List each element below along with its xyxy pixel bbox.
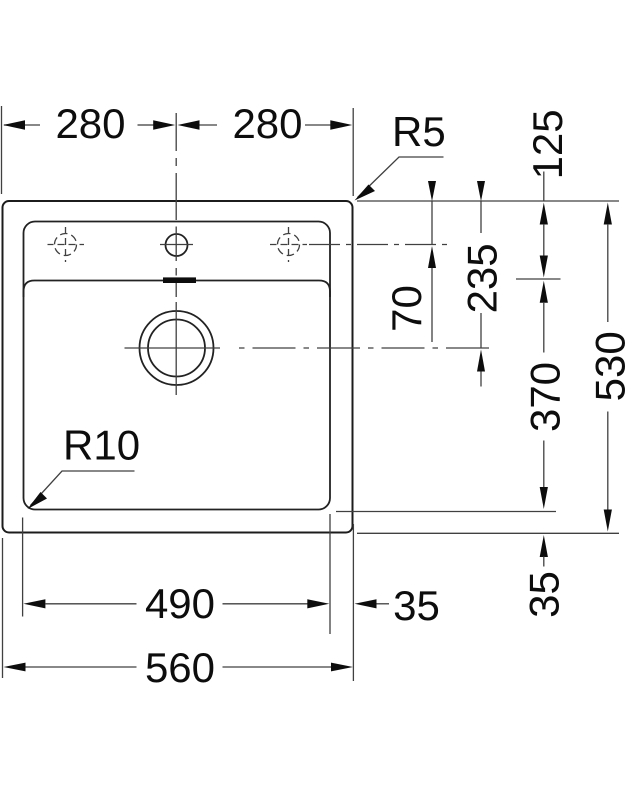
svg-text:125: 125	[524, 109, 571, 179]
svg-text:280: 280	[55, 100, 125, 147]
svg-text:R10: R10	[63, 422, 140, 469]
svg-text:490: 490	[145, 580, 215, 627]
svg-text:235: 235	[459, 243, 506, 313]
svg-text:35: 35	[521, 571, 568, 618]
svg-text:280: 280	[232, 100, 302, 147]
svg-text:70: 70	[383, 285, 430, 332]
svg-text:370: 370	[522, 362, 569, 432]
svg-text:530: 530	[587, 331, 625, 401]
svg-text:R5: R5	[392, 108, 446, 155]
svg-text:35: 35	[393, 582, 440, 629]
svg-text:560: 560	[145, 644, 215, 691]
